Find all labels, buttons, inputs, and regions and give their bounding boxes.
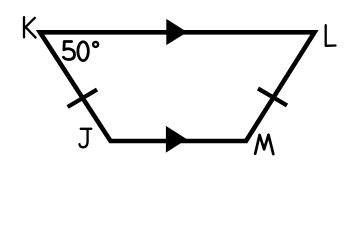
label M bbox=[255, 135, 273, 154]
arrow on side JM bbox=[166, 126, 187, 153]
angle label 50 deg : digit 5 bbox=[64, 42, 75, 60]
label J bbox=[80, 129, 92, 148]
tick mark on side KJ bbox=[68, 90, 97, 107]
tick mark on side LM bbox=[258, 89, 287, 106]
angle label 50 deg : digit 0 bbox=[78, 42, 88, 61]
angle label degree symbol bbox=[93, 42, 98, 47]
label L bbox=[326, 25, 336, 46]
label K bbox=[24, 17, 36, 37]
arrow on side KL bbox=[166, 19, 187, 45]
trapezoid KLMJ outline bbox=[40, 32, 315, 141]
